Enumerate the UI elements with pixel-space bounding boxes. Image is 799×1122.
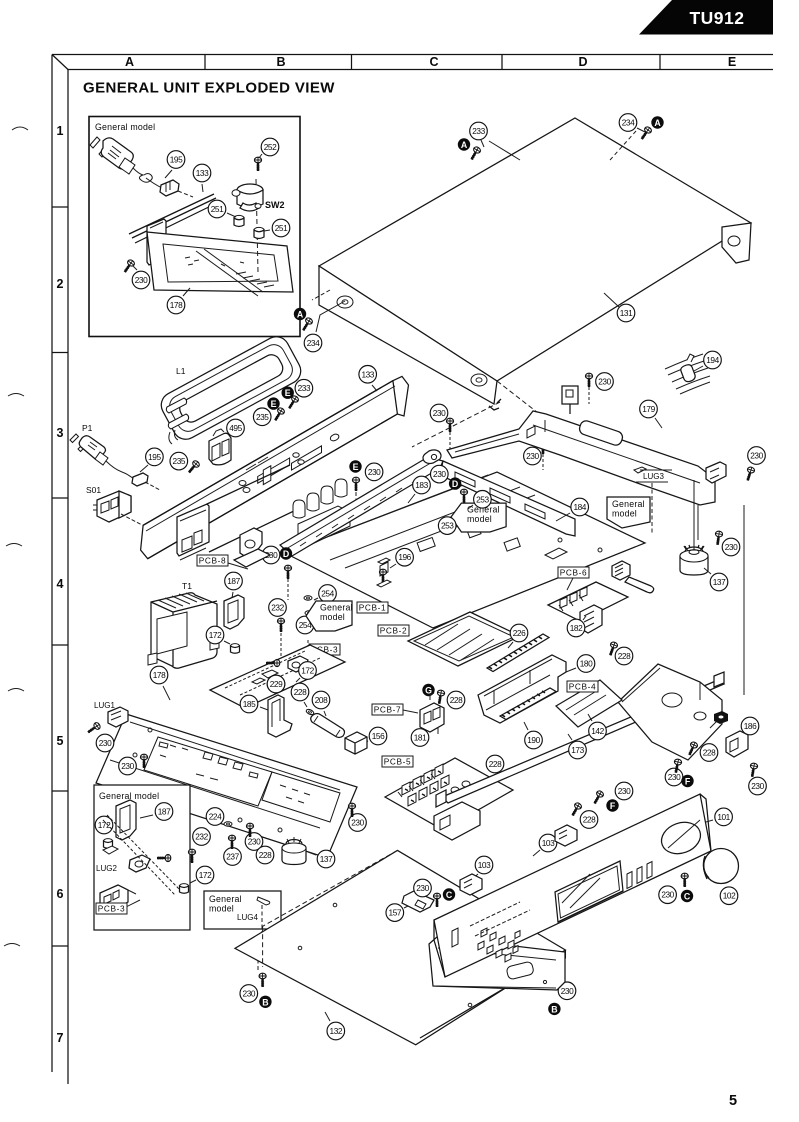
svg-text:137: 137 [713,577,726,587]
svg-text:1: 1 [57,124,64,138]
svg-text:137: 137 [320,854,333,864]
svg-text:195: 195 [170,155,183,165]
svg-text:PCB-3: PCB-3 [98,904,125,914]
svg-text:230: 230 [668,772,681,782]
svg-text:E: E [728,55,736,69]
svg-text:132: 132 [330,1026,343,1036]
svg-text:252: 252 [264,142,277,152]
svg-text:235: 235 [173,456,186,466]
svg-text:172: 172 [301,666,314,676]
svg-text:172: 172 [199,870,212,880]
svg-text:A: A [654,118,661,128]
svg-text:186: 186 [744,721,757,731]
svg-text:196: 196 [398,552,411,562]
svg-text:A: A [461,140,468,150]
svg-text:PCB-4: PCB-4 [569,682,596,692]
svg-text:model: model [467,514,492,524]
svg-text:LUG3: LUG3 [643,472,664,481]
svg-text:226: 226 [513,628,526,638]
svg-text:5: 5 [57,734,64,748]
svg-text:230: 230 [526,451,539,461]
svg-text:230: 230 [99,738,112,748]
svg-text:PCB-5: PCB-5 [384,757,411,767]
svg-text:183: 183 [415,480,428,490]
svg-text:230: 230 [751,781,764,791]
svg-text:178: 178 [153,670,166,680]
svg-text:172: 172 [209,630,222,640]
svg-text:230: 230 [433,469,446,479]
svg-text:General model: General model [95,122,155,132]
svg-text:230: 230 [561,986,574,996]
svg-text:237: 237 [226,852,239,862]
svg-text:233: 233 [472,126,485,136]
svg-text:133: 133 [196,168,209,178]
svg-text:B: B [276,55,285,69]
svg-text:253: 253 [441,521,454,531]
svg-text:230: 230 [248,837,261,847]
svg-text:B: B [551,1004,557,1014]
svg-text:103: 103 [478,860,491,870]
svg-text:232: 232 [195,832,208,842]
svg-text:230: 230 [618,786,631,796]
svg-text:E: E [285,388,291,398]
svg-text:TU912: TU912 [689,8,744,28]
svg-text:178: 178 [170,300,183,310]
svg-text:233: 233 [298,383,311,393]
svg-text:228: 228 [703,748,716,758]
svg-text:General: General [209,894,242,904]
svg-text:101: 101 [717,812,730,822]
svg-text:230: 230 [598,377,611,387]
svg-text:PCB-6: PCB-6 [560,568,587,578]
svg-text:102: 102 [723,891,736,901]
svg-text:194: 194 [706,355,719,365]
svg-text:195: 195 [148,452,161,462]
svg-text:187: 187 [158,807,171,817]
svg-text:E: E [271,399,277,409]
svg-text:230: 230 [661,890,674,900]
svg-text:254: 254 [321,589,334,599]
svg-text:C: C [429,55,438,69]
svg-text:model: model [209,904,234,914]
svg-text:228: 228 [618,651,631,661]
svg-text:228: 228 [294,687,307,697]
svg-text:S01: S01 [86,485,101,495]
svg-text:190: 190 [527,735,540,745]
svg-text:495: 495 [229,423,242,433]
svg-text:General: General [320,603,353,613]
svg-text:General model: General model [99,791,159,801]
svg-text:6: 6 [57,887,64,901]
svg-text:SW2: SW2 [265,200,285,210]
svg-text:230: 230 [416,883,429,893]
svg-text:180: 180 [580,659,593,669]
svg-text:LUG4: LUG4 [237,913,258,922]
svg-text:5: 5 [729,1093,737,1109]
svg-text:T1: T1 [182,581,192,591]
svg-text:D: D [452,479,458,489]
svg-text:234: 234 [307,338,320,348]
svg-text:251: 251 [275,223,288,233]
svg-text:GENERAL UNIT EXPLODED VIEW: GENERAL UNIT EXPLODED VIEW [83,80,335,97]
svg-text:General: General [612,499,645,509]
svg-text:173: 173 [571,745,584,755]
svg-text:185: 185 [243,699,256,709]
svg-text:model: model [320,612,345,622]
svg-text:L1: L1 [176,366,186,376]
svg-text:B: B [262,997,268,1007]
svg-text:C: C [684,892,691,902]
svg-text:234: 234 [622,118,635,128]
svg-text:230: 230 [243,989,256,999]
svg-text:230: 230 [121,761,134,771]
svg-text:228: 228 [450,695,463,705]
svg-text:229: 229 [270,679,283,689]
svg-text:181: 181 [414,733,427,743]
svg-text:228: 228 [583,815,596,825]
svg-text:2: 2 [57,277,64,291]
svg-text:208: 208 [315,695,328,705]
svg-text:C: C [446,890,453,900]
svg-text:4: 4 [57,577,64,591]
svg-text:224: 224 [209,812,222,822]
svg-text:F: F [610,801,616,811]
svg-text:182: 182 [570,623,583,633]
svg-text:253: 253 [476,494,489,504]
svg-text:PCB-1: PCB-1 [359,603,386,613]
svg-text:179: 179 [642,404,655,414]
svg-text:3: 3 [57,426,64,440]
svg-text:228: 228 [259,850,272,860]
svg-text:A: A [125,55,134,69]
svg-text:F: F [685,777,691,787]
svg-text:131: 131 [620,308,633,318]
svg-text:228: 228 [489,759,502,769]
svg-text:187: 187 [227,576,240,586]
svg-text:D: D [578,55,587,69]
svg-text:142: 142 [591,726,604,736]
svg-text:251: 251 [211,204,224,214]
svg-text:235: 235 [256,412,269,422]
svg-text:7: 7 [57,1031,64,1045]
svg-text:232: 232 [271,603,284,613]
svg-text:LUG2: LUG2 [96,864,117,873]
svg-text:230: 230 [750,451,763,461]
svg-text:A: A [297,310,304,320]
svg-text:PCB-7: PCB-7 [374,705,401,715]
svg-text:103: 103 [542,838,555,848]
svg-text:230: 230 [368,467,381,477]
svg-text:230: 230 [351,818,364,828]
svg-text:PCB-8: PCB-8 [199,556,226,566]
svg-text:LUG1: LUG1 [94,701,115,710]
svg-text:184: 184 [573,502,586,512]
svg-text:E: E [353,462,359,472]
svg-text:230: 230 [433,408,446,418]
svg-text:230: 230 [725,542,738,552]
svg-text:D: D [283,549,289,559]
svg-text:PCB-2: PCB-2 [380,626,407,636]
svg-text:157: 157 [389,908,402,918]
svg-text:model: model [612,509,637,519]
svg-text:133: 133 [361,369,374,379]
svg-text:230: 230 [135,275,148,285]
svg-text:156: 156 [372,731,385,741]
svg-text:P1: P1 [82,423,93,433]
